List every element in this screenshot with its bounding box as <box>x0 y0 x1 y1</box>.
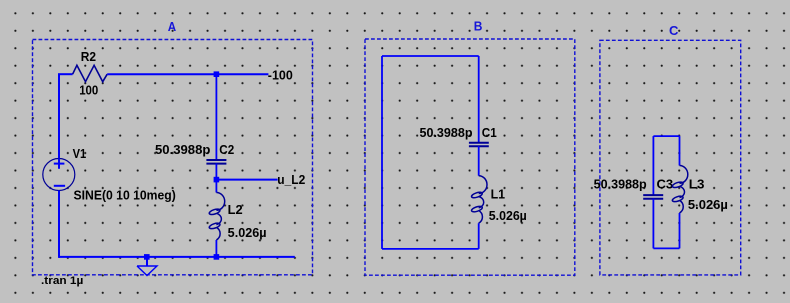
wire B loop top <box>382 55 479 57</box>
svg-text:C2: C2 <box>219 143 234 157</box>
box B dashed border <box>365 39 575 275</box>
wire V1 bottom stub <box>58 191 60 258</box>
svg-text:L2: L2 <box>228 203 243 217</box>
label C2 <box>219 143 234 157</box>
resistor R2 <box>73 65 108 81</box>
label C <box>669 23 679 38</box>
net label u_L2 <box>277 173 305 187</box>
junction ground node <box>144 254 150 260</box>
value 5.026u (L1) <box>489 209 527 223</box>
wire L1 bottom <box>478 223 480 249</box>
value 50.3988p (C2) <box>155 143 211 157</box>
svg-text:100: 100 <box>79 83 98 97</box>
wire C loop left top segment <box>652 136 654 195</box>
wire B loop bottom <box>382 248 479 250</box>
net label -100 <box>268 68 293 82</box>
svg-text:50.3988p: 50.3988p <box>155 143 211 157</box>
label L1 <box>491 187 506 201</box>
svg-text:50.3988p: 50.3988p <box>594 177 647 191</box>
box C dashed border <box>600 40 741 275</box>
box A dashed border <box>33 40 313 275</box>
svg-text:C3: C3 <box>657 177 674 191</box>
wire C2 bottom to junction <box>215 164 217 193</box>
wire L2 bottom <box>215 240 217 257</box>
wire B loop left <box>381 56 383 249</box>
svg-text:C1: C1 <box>482 126 497 140</box>
svg-text:u_L2: u_L2 <box>277 173 305 187</box>
svg-text:R2: R2 <box>81 50 96 64</box>
junction u_L2 tap <box>214 177 220 183</box>
svg-text:L1: L1 <box>491 187 506 201</box>
wire B right top segment <box>478 56 480 142</box>
wire bottom horizontal <box>59 256 295 258</box>
ground <box>137 257 157 276</box>
label C3 <box>657 177 674 191</box>
inductor L3 <box>672 166 688 214</box>
label C1 <box>482 126 497 140</box>
svg-text:B: B <box>474 18 483 33</box>
capacitor C1 <box>469 143 489 147</box>
svg-text:SINE(0 10 10meg): SINE(0 10 10meg) <box>74 189 176 203</box>
V1 plus sign <box>54 159 65 169</box>
wire C1 to L1 <box>478 146 480 176</box>
capacitor C2 <box>206 160 226 164</box>
inductor L2 <box>209 193 225 241</box>
svg-text:.tran 1µ: .tran 1µ <box>41 275 83 287</box>
svg-text:C: C <box>669 23 679 38</box>
value 50.3988p (C3) <box>594 177 647 191</box>
V1 minus sign <box>54 185 65 187</box>
svg-text:V1: V1 <box>73 147 87 161</box>
junction top node <box>214 71 220 77</box>
wire top-left vertical <box>58 74 60 158</box>
spice directive .tran 1u <box>41 275 83 287</box>
label L3 <box>689 177 705 191</box>
wire u_L2 tap <box>216 179 277 181</box>
inductor L1 <box>471 176 487 224</box>
voltage source V1 circle <box>43 159 75 191</box>
label L2 <box>228 203 243 217</box>
label B <box>474 18 483 33</box>
label V1 <box>73 147 87 161</box>
wire C loop bottom <box>653 247 679 249</box>
wire C loop left bottom segment <box>652 199 654 249</box>
capacitor C3 <box>643 195 663 199</box>
svg-text:A: A <box>168 19 177 34</box>
value SINE(0 10 10meg) <box>74 189 176 203</box>
wire L3 bottom <box>679 213 681 248</box>
value 5.026u (L2) <box>228 226 267 240</box>
wire C loop right top segment <box>679 136 681 165</box>
svg-text:L3: L3 <box>689 177 705 191</box>
value 5.026u (L3) <box>688 198 728 212</box>
value 100 <box>79 83 98 97</box>
svg-text:-100: -100 <box>268 68 293 82</box>
wire C loop top <box>653 135 679 137</box>
wire top horizontal to node <box>107 73 268 75</box>
svg-text:5.026µ: 5.026µ <box>489 209 527 223</box>
svg-text:50.3988p: 50.3988p <box>420 126 473 140</box>
wire top horizontal left lead <box>58 73 73 75</box>
svg-text:5.026µ: 5.026µ <box>228 226 267 240</box>
label R2 <box>81 50 96 64</box>
svg-text:5.026µ: 5.026µ <box>688 198 728 212</box>
wire C2 top <box>215 74 217 159</box>
value 50.3988p (C1) <box>420 126 473 140</box>
label A <box>168 19 177 34</box>
junction L2 bottom node <box>214 254 220 260</box>
